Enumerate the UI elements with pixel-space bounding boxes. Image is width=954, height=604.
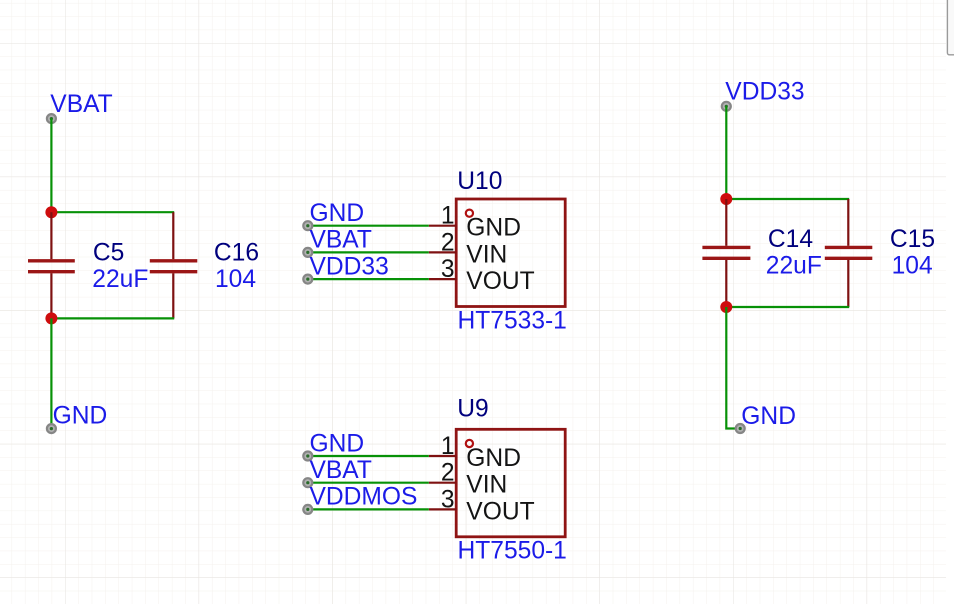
svg-text:VDDMOS: VDDMOS (310, 484, 418, 511)
IC U9 pin1 marker circle (466, 440, 473, 447)
capacitor C15 top lead (847, 199, 849, 246)
capacitor C14 bottom lead (725, 260, 727, 307)
junction dot top-left (45, 206, 57, 218)
U9 pin 1 stub (429, 455, 456, 457)
capacitor C14 top lead (725, 199, 727, 246)
U10 pin 1 stub (429, 225, 456, 227)
svg-text:C15: C15 (890, 226, 935, 253)
capacitor C15 bottom lead (847, 260, 849, 307)
wire GND vertical (left) (50, 318, 52, 428)
port pin GND (U10) (303, 221, 312, 230)
svg-text:VBAT: VBAT (310, 227, 372, 254)
wire top horizontal to C16 (51, 211, 174, 213)
wire bottom horizontal from C16 (51, 317, 174, 319)
svg-text:22uF: 22uF (92, 266, 148, 293)
svg-text:U9: U9 (457, 396, 488, 423)
U9 pin 2 stub (429, 482, 456, 484)
port pin GND (U9) (303, 452, 312, 461)
port pin GND (right) (736, 424, 745, 433)
wire VDD33 to U10 pin 3 (308, 278, 429, 280)
junction dot top-right (720, 193, 732, 205)
port pin VDDMOS (U9) (303, 505, 312, 514)
svg-text:VIN: VIN (466, 472, 507, 499)
capacitor C16 plates (150, 261, 198, 272)
U10 pin 3 stub (429, 278, 456, 280)
svg-text:22uF: 22uF (766, 253, 822, 280)
U10 pin 2 stub (429, 251, 456, 253)
wire VDDMOS to U9 pin 3 (308, 508, 429, 510)
wire GND to U10 pin 1 (308, 225, 429, 227)
U9 pin 3 stub (429, 508, 456, 510)
svg-text:VIN: VIN (466, 241, 507, 268)
svg-text:104: 104 (892, 253, 933, 280)
wire top horizontal to C15 (726, 198, 849, 200)
svg-text:VDD33: VDD33 (725, 79, 804, 106)
svg-text:GND: GND (310, 200, 365, 227)
IC U9 body (456, 429, 565, 537)
svg-text:VBAT: VBAT (310, 457, 372, 484)
capacitor C14 plates (702, 247, 750, 258)
port pin VBAT (U10) (303, 248, 312, 257)
svg-text:C5: C5 (93, 239, 124, 266)
IC U10 pin1 marker circle (466, 210, 473, 217)
capacitor C5 plates (28, 261, 75, 272)
svg-text:U10: U10 (457, 168, 502, 195)
wire VDD33 vertical (right) (725, 106, 727, 199)
capacitor C5 bottom lead (50, 273, 52, 318)
svg-text:HT7533-1: HT7533-1 (458, 308, 567, 335)
wire VBAT vertical (left) (50, 119, 52, 213)
svg-text:GND: GND (466, 215, 521, 242)
svg-text:VOUT: VOUT (466, 268, 534, 295)
svg-text:C16: C16 (214, 239, 259, 266)
wire VBAT to U10 pin 2 (308, 251, 429, 253)
scrollbar thumb (947, 0, 954, 55)
capacitor C16 top lead (172, 212, 174, 259)
svg-text:C14: C14 (768, 226, 813, 253)
svg-text:VDD33: VDD33 (310, 253, 389, 280)
svg-text:VOUT: VOUT (466, 498, 534, 525)
svg-text:GND: GND (466, 445, 521, 472)
port pin VBAT (U9) (303, 478, 312, 487)
svg-text:GND: GND (741, 403, 796, 430)
svg-text:VBAT: VBAT (50, 91, 112, 118)
port pin VDD33 (right) (722, 102, 731, 111)
port pin GND (left) (47, 424, 56, 433)
port pin VBAT (left) (47, 114, 56, 123)
port pin VDD33 (U10) (303, 275, 312, 284)
capacitor C16 bottom lead (172, 273, 174, 318)
svg-text:GND: GND (310, 430, 365, 457)
wire GND vertical (right) (726, 307, 740, 429)
junction dot bottom-left (45, 312, 57, 324)
junction dot bottom-right (720, 301, 732, 313)
scrollbar track (946, 0, 954, 604)
wire VBAT to U9 pin 2 (308, 482, 429, 484)
IC U10 body (456, 199, 565, 307)
svg-text:GND: GND (53, 403, 108, 430)
capacitor C15 plates (825, 247, 873, 258)
svg-text:HT7550-1: HT7550-1 (458, 537, 567, 564)
capacitor C5 top lead (50, 212, 52, 259)
wire bottom horizontal from C15 (726, 306, 849, 308)
wire GND to U9 pin 1 (308, 455, 429, 457)
svg-text:104: 104 (215, 266, 256, 293)
